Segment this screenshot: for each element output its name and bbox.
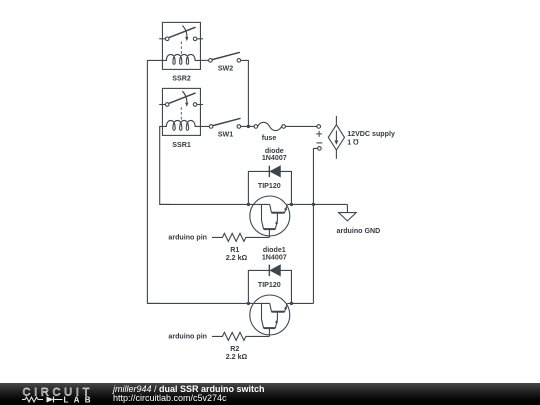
node stage1 loop left — [247, 203, 250, 206]
source 12VDC supply — [316, 116, 344, 159]
wire supply minus to rail — [313, 148, 317, 303]
footer bar — [0, 383, 540, 405]
node stage1 rail — [312, 203, 315, 206]
svg-text:TIP120: TIP120 — [258, 182, 281, 190]
switch SW1 — [200, 118, 253, 128]
svg-text:arduino GND: arduino GND — [337, 227, 381, 235]
wire SW2 to fuse node — [241, 60, 249, 126]
wire stage1 collector chord — [160, 203, 270, 205]
svg-text:TIP120: TIP120 — [258, 281, 281, 289]
svg-text:LAB: LAB — [64, 395, 91, 404]
svg-text:arduino pin: arduino pin — [168, 332, 207, 340]
svg-text:CIRCUIT: CIRCUIT — [23, 386, 92, 398]
wire stage2 collector chord — [147, 302, 269, 304]
relay SSR1 — [159, 88, 203, 135]
svg-text:fuse: fuse — [262, 134, 277, 142]
wire SSR2 coil to stage2 chord — [147, 60, 162, 303]
node junction SW1/SW2/fuse — [247, 125, 250, 128]
svg-text:SSR1: SSR1 — [172, 141, 191, 149]
node stage1 loop right — [290, 203, 293, 206]
diode D2 (diode1) flyback loop — [248, 265, 291, 304]
svg-text:SW1: SW1 — [218, 131, 233, 139]
logo diode glyph — [47, 397, 54, 403]
svg-text:1N4007: 1N4007 — [262, 154, 287, 162]
svg-text:R2: R2 — [230, 345, 239, 353]
node stage2 loop left — [247, 302, 250, 305]
svg-text:2.2 kΩ: 2.2 kΩ — [226, 254, 248, 262]
transistor Q2 TIP120 — [250, 295, 290, 336]
node stage2 loop right — [290, 302, 293, 305]
svg-text:1 ℧: 1 ℧ — [347, 139, 359, 147]
wire SSR1 coil to stage1 chord — [160, 126, 170, 204]
svg-text:http://circuitlab.com/c5v274c: http://circuitlab.com/c5v274c — [113, 393, 227, 403]
svg-text:12VDC supply: 12VDC supply — [347, 130, 395, 138]
transistor Q1 TIP120 — [250, 196, 290, 237]
switch SW2 — [200, 52, 241, 62]
wire stage2 emitter to rail — [287, 302, 313, 304]
svg-text:1N4007: 1N4007 — [262, 254, 287, 262]
svg-text:SSR2: SSR2 — [172, 74, 191, 82]
svg-text:SW2: SW2 — [218, 64, 233, 72]
resistor R1 — [212, 233, 270, 241]
svg-text:2.2 kΩ: 2.2 kΩ — [226, 353, 248, 361]
fuse — [254, 122, 317, 130]
logo resistor glyph — [22, 397, 43, 402]
resistor R2 — [212, 332, 270, 340]
svg-text:arduino pin: arduino pin — [168, 233, 207, 241]
svg-text:R1: R1 — [230, 246, 239, 254]
ground arduino GND — [339, 204, 357, 221]
relay SSR2 — [159, 22, 203, 69]
wire stage1 emitter to rail and gnd — [287, 203, 347, 205]
diode D1 (diode) flyback loop — [248, 166, 291, 205]
